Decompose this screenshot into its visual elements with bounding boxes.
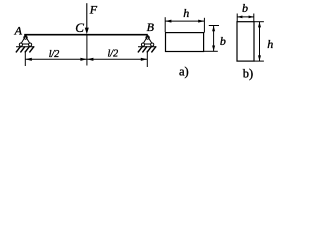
hatching B — [138, 46, 143, 52]
svg-text:h: h — [183, 6, 189, 20]
support A (pin) — [16, 36, 35, 53]
extension line under B — [146, 51, 148, 67]
dimension line l/2 left — [25, 58, 87, 60]
beam AB — [24, 34, 148, 36]
dimension b (b) — [237, 16, 254, 18]
dimension h (a) — [165, 20, 204, 22]
dimension b (a) — [213, 26, 215, 52]
svg-text:F: F — [89, 3, 98, 17]
section a) rectangle — [166, 33, 204, 52]
extension lines b (b) — [236, 14, 238, 22]
hatching A — [16, 46, 21, 52]
support B (roller) — [138, 36, 157, 53]
dimension h (b) — [259, 22, 261, 61]
svg-text:A: A — [14, 24, 23, 38]
svg-text:B: B — [147, 20, 155, 34]
extension lines h (a) — [164, 17, 166, 32]
svg-text:l/2: l/2 — [108, 48, 119, 59]
section b) rectangle — [237, 22, 254, 61]
svg-text:l/2: l/2 — [49, 49, 60, 60]
svg-text:C: C — [75, 20, 84, 35]
svg-text:b: b — [242, 1, 248, 15]
extension line under C — [86, 35, 88, 66]
svg-text:a): a) — [179, 64, 189, 78]
extension lines b (a) — [209, 25, 219, 27]
svg-text:b): b) — [243, 67, 253, 81]
dimension line l/2 right — [87, 58, 147, 60]
svg-text:b: b — [220, 34, 226, 48]
extension lines h (b) — [254, 21, 264, 23]
force F arrow — [86, 3, 88, 29]
svg-text:h: h — [267, 37, 273, 51]
extension line under A — [24, 51, 26, 66]
